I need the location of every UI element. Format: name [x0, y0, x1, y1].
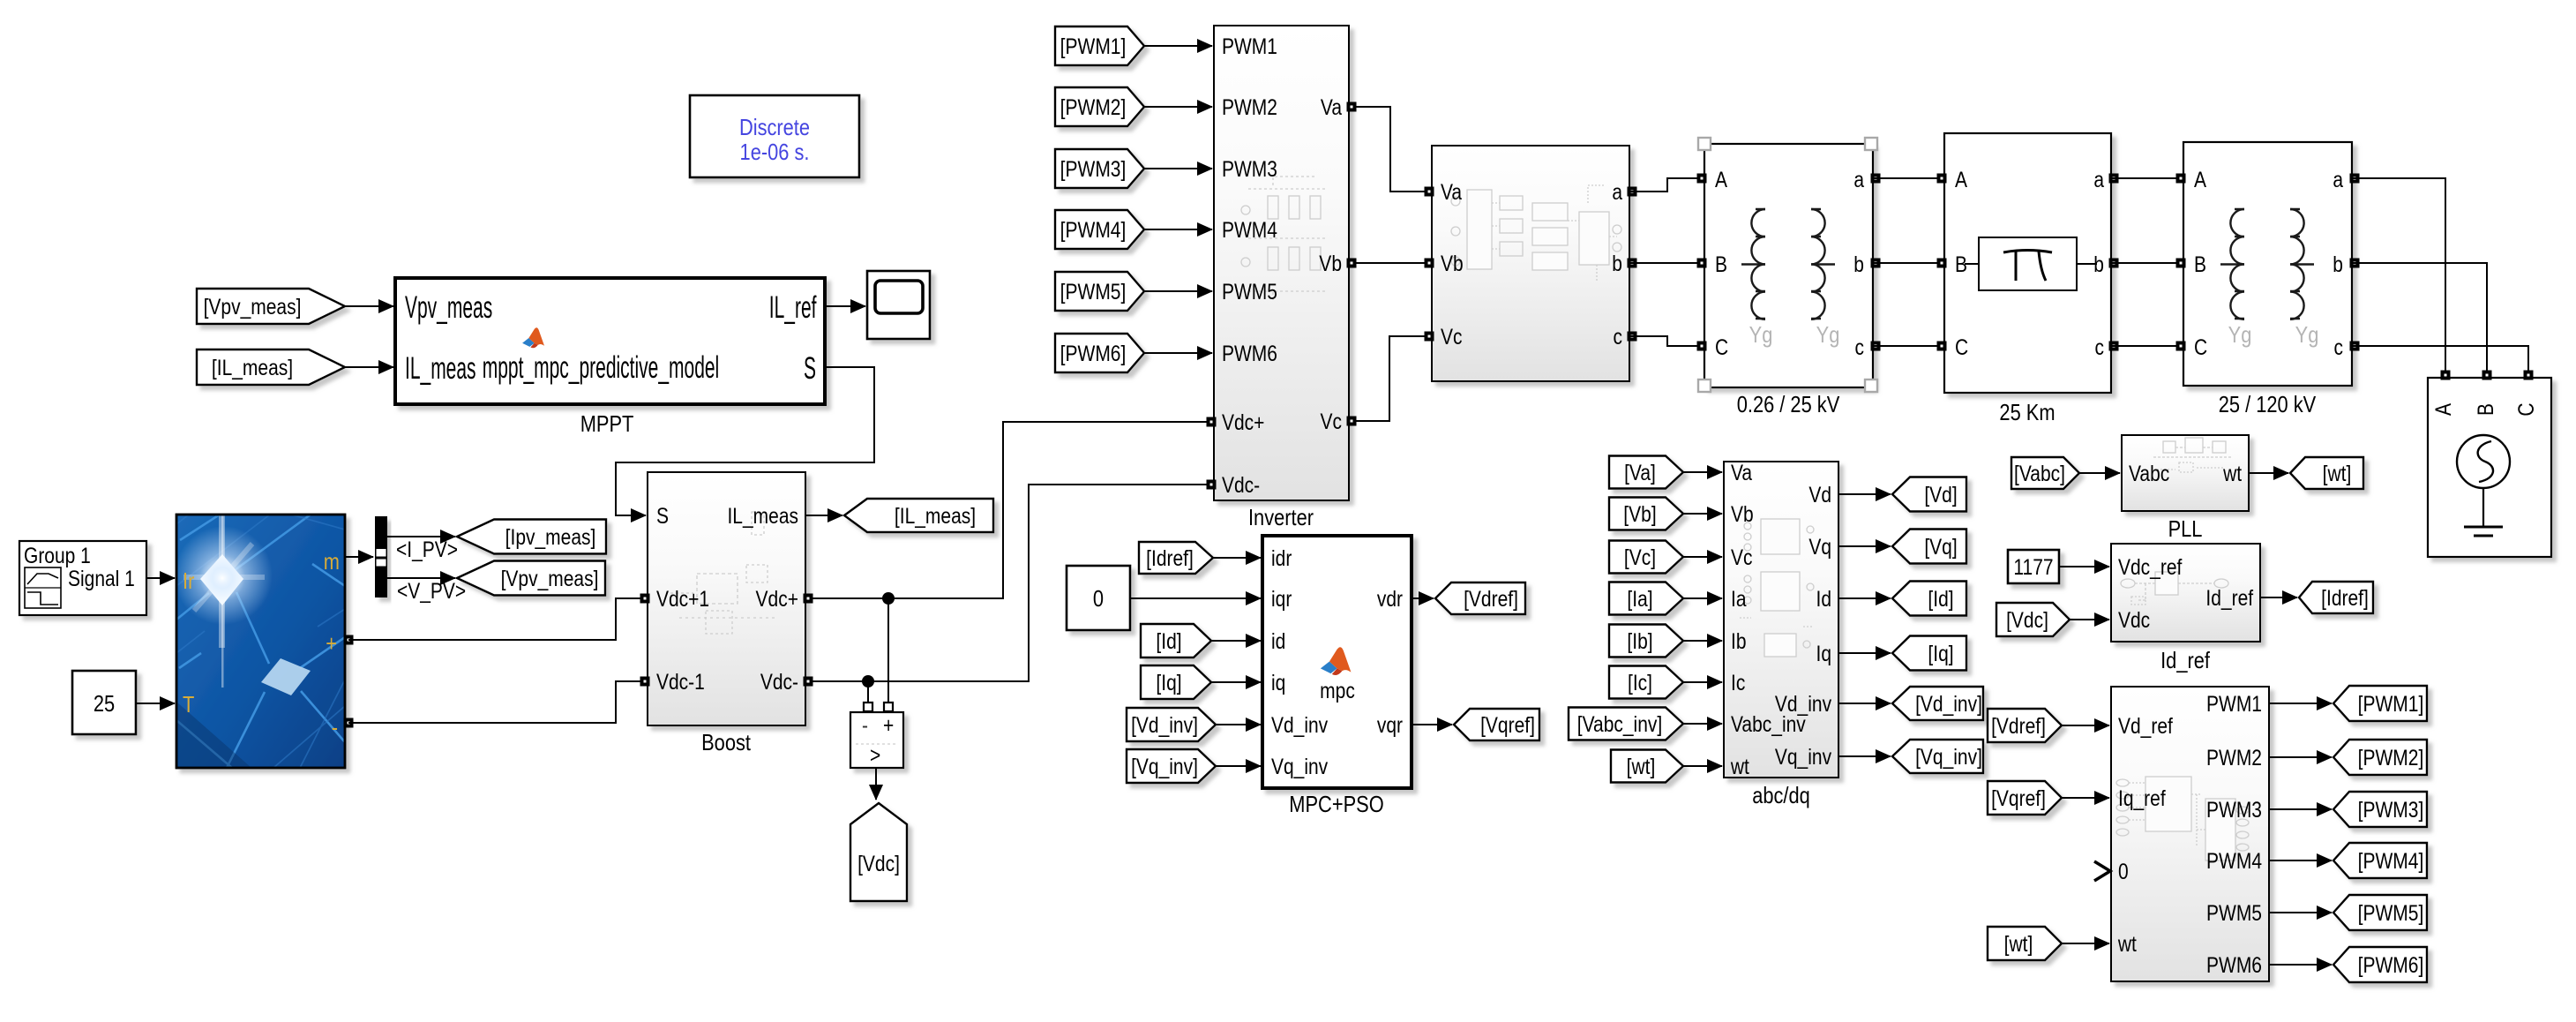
svg-text:[Vabc]: [Vabc]: [2014, 461, 2065, 485]
svg-text:A: A: [1715, 167, 1728, 192]
svg-text:MPC+PSO: MPC+PSO: [1289, 792, 1383, 817]
svg-text:[Vqref]: [Vqref]: [1991, 785, 2046, 810]
wire [Vpv_meas] to MPPT Vpv_meas: [345, 305, 393, 307]
From tag [PWM6]: [1055, 334, 1144, 372]
wire [wt] to PWM generator wt: [2062, 943, 2109, 944]
From tag [wt] lower: [1988, 927, 2062, 960]
Goto tag [Vq]: [1892, 530, 1966, 564]
svg-text:Vdc+1: Vdc+1: [656, 586, 709, 611]
svg-text:Vc: Vc: [1731, 545, 1753, 569]
svg-text:C: C: [2513, 402, 2538, 416]
wire 0 to MPC iqr: [1130, 597, 1261, 599]
svg-text:m: m: [324, 549, 340, 575]
svg-text:Ib: Ib: [1731, 628, 1747, 653]
svg-text:[Iq]: [Iq]: [1928, 641, 1953, 665]
Bus Selector block: [375, 516, 387, 597]
svg-text:a: a: [2333, 167, 2343, 192]
svg-text:Boost: Boost: [701, 730, 751, 755]
primary winding: [2220, 209, 2244, 319]
svg-text:1177: 1177: [2013, 554, 2053, 579]
svg-text:[wt]: [wt]: [2004, 931, 2033, 956]
wire Signal Builder to PV Ir: [146, 577, 175, 579]
svg-text:Ir: Ir: [183, 568, 194, 594]
svg-text:[Ia]: [Ia]: [1627, 586, 1652, 611]
wire [Vq_inv] to MPC Vq_inv: [1216, 765, 1261, 767]
wire junction to voltage sensor -: [867, 681, 869, 703]
junction on Vdc+ wire: [882, 592, 895, 605]
svg-text:Iq_ref: Iq_ref: [2118, 785, 2166, 810]
Scope block: [867, 271, 930, 339]
measurement input ports: [1425, 187, 1434, 197]
From tag [Vdc]: [1996, 603, 2070, 636]
svg-text:PWM3: PWM3: [2206, 797, 2262, 822]
wire Inverter Vb to measurement Vb: [1349, 262, 1432, 264]
svg-text:vqr: vqr: [1377, 712, 1403, 737]
wire abc/dq Iq to [Iq] goto: [1838, 652, 1891, 654]
Goto tag [PWM4]: [2333, 843, 2427, 878]
wire [PWM2] to Inverter: [1144, 106, 1212, 108]
svg-text:Vq_inv: Vq_inv: [1271, 754, 1329, 778]
svg-text:Vdc_ref: Vdc_ref: [2118, 554, 2183, 579]
wire abc/dq Vq_inv to [Vq_inv] goto: [1838, 755, 1891, 757]
svg-text:[Id]: [Id]: [1156, 628, 1181, 653]
wire PWM3 to [PWM3] goto: [2269, 808, 2332, 810]
svg-text:iq: iq: [1271, 670, 1285, 695]
svg-text:Vq: Vq: [1808, 534, 1831, 559]
svg-text:[Vpv_meas]: [Vpv_meas]: [204, 294, 302, 319]
wire abc/dq Vd to [Vd] goto: [1838, 493, 1891, 495]
svg-text:[Vdc]: [Vdc]: [857, 851, 900, 875]
Goto tag [Vpv_meas]: [457, 561, 605, 596]
svg-text:-: -: [332, 715, 338, 740]
Signal Builder block "Group 1 / Signal 1": [19, 541, 146, 615]
wire line c to transformer2 C: [2111, 345, 2183, 347]
transformer 25/120 kV: [2183, 142, 2352, 386]
PLL subsystem: [2122, 435, 2249, 511]
Goto tag [Vd]: [1892, 477, 1966, 512]
svg-text:A: A: [2194, 167, 2207, 192]
Goto tag [Vdc] (downward): [850, 803, 907, 901]
From tag [IL_meas]: [197, 349, 345, 385]
svg-text:Vc: Vc: [1441, 324, 1463, 349]
svg-text:1e-06 s.: 1e-06 s.: [740, 139, 810, 165]
svg-text:S: S: [656, 503, 669, 528]
svg-text:[IL_meas]: [IL_meas]: [895, 503, 976, 528]
svg-text:[PWM1]: [PWM1]: [2358, 691, 2424, 716]
From tag [PWM3]: [1055, 149, 1144, 188]
svg-text:Ia: Ia: [1731, 586, 1747, 611]
transformer 0.26/25 kV: [1704, 144, 1873, 387]
svg-text:wt: wt: [2222, 461, 2242, 485]
three-phase measurement subsystem: [1432, 146, 1629, 381]
wire [Vabc] to PLL: [2079, 472, 2120, 474]
wire [Ib] to abc/dq Ib: [1683, 640, 1722, 642]
svg-text:[Ib]: [Ib]: [1627, 628, 1652, 653]
From tag [Iq]: [1141, 665, 1211, 699]
secondary winding: [1811, 209, 1835, 319]
wire measurement c to transformer1 C: [1629, 336, 1704, 346]
svg-text:Vdc+: Vdc+: [1222, 410, 1264, 434]
svg-text:Vb: Vb: [1731, 501, 1754, 526]
wire [Idref] to MPC idr: [1213, 557, 1261, 559]
svg-text:Vabc: Vabc: [2129, 461, 2169, 485]
svg-text:c: c: [1613, 324, 1622, 349]
svg-text:PWM1: PWM1: [1222, 34, 1277, 58]
svg-text:[Vdref]: [Vdref]: [1464, 586, 1518, 611]
wire PWM2 to [PWM2] goto: [2269, 756, 2332, 758]
Inverter Vb output port: [1347, 259, 1357, 268]
From tag [Id]: [1141, 624, 1211, 658]
svg-text:[Vabc_inv]: [Vabc_inv]: [1577, 711, 1662, 736]
Goto tag [PWM6]: [2333, 947, 2427, 982]
wire measurement b to transformer1 B: [1629, 262, 1704, 264]
Inverter Va output port: [1347, 102, 1357, 112]
From tag [wt]: [1611, 750, 1683, 783]
From tag [PWM1]: [1055, 26, 1144, 65]
wire [Vd_inv] to MPC Vd_inv: [1216, 724, 1261, 725]
svg-text:PWM4: PWM4: [1222, 217, 1277, 242]
wire Boost IL_meas to [IL_meas] goto: [805, 515, 842, 516]
svg-text:c: c: [2094, 334, 2104, 359]
wire Bus Selector <V_PV> to [Vpv_meas]: [387, 577, 455, 579]
25 Km ports: [1937, 174, 1947, 184]
MATLAB logo inside MPC+PSO: [1321, 647, 1352, 675]
svg-text:25 / 120 kV: 25 / 120 kV: [2219, 392, 2316, 417]
wire [Vdc] to Id_ref Vdc: [2070, 619, 2109, 620]
svg-text:Yg: Yg: [2228, 322, 2252, 348]
MATLAB logo inside MPPT: [522, 327, 544, 348]
wire [Ic] to abc/dq Ic: [1683, 681, 1722, 683]
wire [IL_meas] to MPPT IL_meas: [345, 366, 393, 368]
Goto tag [PWM2]: [2333, 740, 2427, 775]
PV Array block (solar panel image): [174, 515, 345, 768]
svg-text:Vd_ref: Vd_ref: [2118, 713, 2173, 738]
svg-text:Id: Id: [1816, 586, 1831, 611]
wire 25 to PV T: [136, 703, 175, 704]
wire MPPT IL_ref to Scope: [825, 305, 865, 307]
svg-text:mpc: mpc: [1320, 678, 1355, 703]
svg-text:[Vb]: [Vb]: [1623, 501, 1656, 526]
wire voltage sensor to [Vdc] goto: [875, 768, 877, 800]
svg-text:Va: Va: [1441, 179, 1462, 204]
wire abc/dq Vq to [Vq] goto: [1838, 545, 1891, 547]
Boost Vdc-1 input port: [640, 677, 650, 687]
svg-text:PWM6: PWM6: [2206, 952, 2262, 977]
svg-text:Yg: Yg: [1749, 322, 1773, 348]
measurement output ports: [1628, 187, 1637, 197]
wire Boost Vdc+ to Inverter Vdc+: [805, 422, 1214, 598]
MPPT MATLAB-function block: [395, 278, 825, 404]
svg-text:[PWM4]: [PWM4]: [1060, 217, 1127, 242]
wire [Vdref] to PWM generator Vd_ref: [2062, 725, 2109, 726]
svg-text:Vpv_meas: Vpv_meas: [405, 291, 492, 326]
svg-text:[wt]: [wt]: [1627, 754, 1656, 778]
svg-text:Vd_inv: Vd_inv: [1775, 691, 1832, 716]
svg-text:mppt_mpc_predictive_model: mppt_mpc_predictive_model: [483, 351, 719, 386]
svg-text:iqr: iqr: [1271, 586, 1292, 611]
wire [Iq] to MPC iq: [1211, 681, 1261, 683]
wire [Vqref] to PWM generator Iq_ref: [2062, 797, 2109, 799]
svg-text:25 Km: 25 Km: [1999, 400, 2055, 425]
svg-text:c: c: [2333, 334, 2343, 359]
Boost subsystem block: [648, 472, 805, 725]
Inverter Vdc+ input port: [1207, 417, 1217, 427]
svg-text:Group 1: Group 1: [24, 543, 91, 567]
primary winding: [1741, 209, 1765, 319]
svg-text:b: b: [2333, 252, 2343, 276]
sample-time block "Discrete 1e-06 s.": [690, 95, 859, 177]
Goto tag [Idref]: [2299, 582, 2373, 613]
wire 1177 to Id_ref Vdc_ref: [2059, 566, 2109, 567]
svg-text:Ic: Ic: [1731, 670, 1745, 695]
svg-text:A: A: [1955, 167, 1968, 192]
svg-text:[PWM2]: [PWM2]: [2358, 745, 2424, 770]
svg-text:PWM2: PWM2: [1222, 94, 1277, 119]
wire measurement a to transformer1 A: [1629, 178, 1704, 192]
svg-text:abc/dq: abc/dq: [1752, 783, 1810, 808]
PV + output port: [344, 635, 354, 645]
wire [Id] to MPC id: [1211, 640, 1261, 642]
wire [PWM4] to Inverter: [1144, 229, 1212, 230]
wire transformer2 a to grid A: [2352, 178, 2445, 372]
secondary winding: [2290, 209, 2314, 319]
From tag [PWM4]: [1055, 210, 1144, 249]
Boost Vdc+1 input port: [640, 594, 650, 604]
svg-text:[Vpv_meas]: [Vpv_meas]: [501, 566, 599, 590]
constant block 1177: [2008, 550, 2059, 583]
svg-text:[PWM2]: [PWM2]: [1060, 94, 1127, 119]
wire MPPT S to Boost S: [616, 367, 874, 515]
svg-text:Vdc: Vdc: [2118, 607, 2150, 632]
wire junction to voltage sensor +: [887, 598, 889, 703]
svg-text:0: 0: [2118, 859, 2129, 883]
wire MPC vqr to [Vqref] goto: [1412, 724, 1452, 725]
svg-text:vdr: vdr: [1377, 586, 1403, 611]
Goto tag [Vdref]: [1435, 582, 1525, 614]
PWM generator subsystem: [2111, 687, 2269, 981]
Goto tag [IL_meas]: [844, 499, 993, 532]
svg-text:<I_PV>: <I_PV>: [396, 537, 458, 561]
From tag [PWM2]: [1055, 87, 1144, 126]
svg-text:b: b: [1612, 251, 1622, 275]
svg-text:[PWM6]: [PWM6]: [2358, 952, 2424, 977]
wire transformer1 c to line C: [1873, 345, 1944, 347]
From tag [Idref]: [1139, 542, 1213, 574]
grid source top ports: [2441, 371, 2451, 380]
svg-text:Id_ref: Id_ref: [2205, 585, 2253, 610]
wire abc/dq Vd_inv to [Vd_inv] goto: [1838, 703, 1891, 704]
wire [Ia] to abc/dq Ia: [1683, 597, 1722, 599]
svg-text:[PWM6]: [PWM6]: [1060, 341, 1127, 365]
svg-text:IL_ref: IL_ref: [769, 291, 817, 326]
wire Bus Selector <I_PV> to [Ipv_meas]: [387, 536, 455, 537]
wire [PWM3] to Inverter: [1144, 168, 1212, 169]
svg-text:[Vc]: [Vc]: [1624, 545, 1656, 569]
svg-text:B: B: [1715, 252, 1727, 276]
svg-text:a: a: [2093, 167, 2104, 192]
svg-text:-: -: [862, 712, 868, 737]
svg-text:[Vd_inv]: [Vd_inv]: [1131, 712, 1198, 737]
transformer2 ports: [2176, 174, 2186, 184]
svg-text:[Vq_inv]: [Vq_inv]: [1915, 744, 1982, 769]
svg-text:[PWM3]: [PWM3]: [1060, 156, 1127, 181]
wire Boost Vdc- to Inverter Vdc-: [805, 485, 1214, 681]
Boost Vdc+ output port: [804, 594, 813, 604]
svg-text:Vdc+: Vdc+: [756, 586, 798, 611]
Goto tag [Vd_inv]: [1892, 687, 1983, 720]
svg-text:B: B: [2194, 252, 2206, 276]
pi symbol: [2003, 251, 2052, 253]
From tag [Vq_inv]: [1127, 749, 1216, 783]
wire abc/dq Id to [Id] goto: [1838, 597, 1891, 599]
svg-text:[PWM1]: [PWM1]: [1060, 34, 1127, 58]
svg-text:A: A: [2430, 402, 2455, 416]
From tag [Ia]: [1609, 582, 1683, 615]
From tag [Vb]: [1609, 498, 1683, 530]
DC voltage measurement block: [850, 703, 903, 768]
svg-text:Inverter: Inverter: [1248, 505, 1314, 530]
constant block 25: [72, 671, 136, 734]
wire PV - to Boost Vdc-1: [348, 681, 648, 723]
svg-text:T: T: [183, 692, 195, 718]
svg-text:[Vd]: [Vd]: [1924, 482, 1957, 507]
svg-text:[Vdc]: [Vdc]: [2006, 607, 2048, 632]
Goto tag [Vq_inv]: [1892, 740, 1983, 773]
Goto tag [Ipv_meas]: [457, 520, 606, 554]
svg-text:Vb: Vb: [1441, 251, 1464, 275]
wire [Vc] to abc/dq Vc: [1683, 556, 1722, 558]
svg-text:Vq_inv: Vq_inv: [1775, 744, 1832, 769]
svg-text:[Ipv_meas]: [Ipv_meas]: [505, 524, 596, 549]
svg-text:[Vdref]: [Vdref]: [1991, 713, 2046, 738]
Inverter subsystem block: [1214, 26, 1349, 500]
svg-text:B: B: [2473, 403, 2497, 416]
From tag [Vd_inv]: [1127, 708, 1216, 741]
svg-text:<V_PV>: <V_PV>: [397, 578, 466, 603]
svg-text:S: S: [804, 352, 816, 387]
Id_ref subsystem: [2111, 544, 2260, 642]
From tag [Ib]: [1609, 625, 1683, 658]
svg-text:PWM1: PWM1: [2206, 691, 2262, 716]
wire transformer1 b to line B: [1873, 262, 1944, 264]
wire Inverter Va to measurement Va: [1349, 107, 1432, 192]
svg-text:[Iq]: [Iq]: [1156, 670, 1181, 695]
wire PV m to Bus Selector: [345, 556, 373, 558]
svg-text:idr: idr: [1271, 545, 1292, 570]
Goto tag [wt]: [2290, 457, 2363, 489]
svg-text:Yg: Yg: [2295, 322, 2319, 348]
svg-text:C: C: [1955, 334, 1968, 359]
svg-text:IL_meas: IL_meas: [727, 503, 798, 528]
svg-text:C: C: [2194, 334, 2207, 359]
wire Inverter Vc to measurement Vc: [1349, 336, 1432, 421]
svg-text:PWM2: PWM2: [2206, 745, 2262, 770]
From tag [Vdref]: [1988, 709, 2062, 742]
svg-text:[Vq_inv]: [Vq_inv]: [1131, 754, 1198, 778]
Goto tag [Iq]: [1892, 636, 1966, 671]
svg-text:[PWM5]: [PWM5]: [1060, 279, 1127, 304]
abc/dq transformation subsystem: [1724, 460, 1838, 778]
wire [Vabc_inv] to abc/dq Vabc_inv: [1683, 723, 1722, 725]
svg-text:PLL: PLL: [2168, 516, 2203, 542]
svg-text:[Ic]: [Ic]: [1628, 670, 1652, 695]
svg-text:[PWM3]: [PWM3]: [2358, 797, 2424, 822]
From tag [Vpv_meas]: [197, 289, 345, 324]
wire PLL wt to [wt] goto: [2249, 472, 2288, 474]
svg-text:a: a: [1853, 167, 1864, 192]
svg-text:+: +: [326, 631, 337, 657]
svg-text:Id_ref: Id_ref: [2160, 648, 2210, 673]
svg-text:PWM6: PWM6: [1222, 341, 1277, 365]
From tag [Va]: [1609, 456, 1683, 489]
svg-text:PWM5: PWM5: [2206, 900, 2262, 925]
wire PWM1 to [PWM1] goto: [2269, 703, 2332, 704]
svg-text:Vc: Vc: [1320, 409, 1342, 433]
svg-text:id: id: [1271, 628, 1285, 653]
From tag [Ic]: [1609, 666, 1683, 699]
MPC+PSO MATLAB-function block: [1262, 536, 1412, 788]
svg-text:Vdc-: Vdc-: [1222, 472, 1260, 497]
svg-text:PWM5: PWM5: [1222, 279, 1277, 304]
svg-text:IL_meas: IL_meas: [405, 352, 476, 387]
wire [PWM6] to Inverter: [1144, 352, 1212, 354]
transformer1 ports: [1697, 174, 1707, 184]
svg-text:[Vd_inv]: [Vd_inv]: [1915, 691, 1982, 716]
svg-text:[Idref]: [Idref]: [1146, 545, 1194, 570]
junction on Vdc- wire: [862, 675, 874, 688]
svg-text:[Id]: [Id]: [1928, 586, 1953, 611]
svg-text:0: 0: [1093, 586, 1104, 612]
Goto tag [Vqref]: [1454, 709, 1539, 740]
wire [PWM5] to Inverter: [1144, 290, 1212, 292]
PV - output port: [344, 718, 354, 728]
wire line b to transformer2 B: [2111, 262, 2183, 264]
wire PV + to Boost Vdc+1: [348, 598, 648, 640]
svg-text:PWM4: PWM4: [2206, 848, 2262, 873]
Inverter Vc output port: [1347, 417, 1357, 426]
From tag [Vqref]: [1988, 781, 2062, 815]
svg-text:[PWM4]: [PWM4]: [2358, 848, 2424, 873]
wire line a to transformer2 A: [2111, 177, 2183, 179]
svg-text:b: b: [1853, 252, 1864, 276]
wire MPC vdr to [Vdref] goto: [1412, 597, 1434, 599]
svg-text:Va: Va: [1731, 460, 1752, 485]
From tag [Vc]: [1609, 541, 1683, 574]
wire PWM5 to [PWM5] goto: [2269, 912, 2332, 913]
svg-text:25: 25: [94, 691, 115, 717]
pi-section line block 25 Km: [1944, 133, 2111, 393]
svg-text:C: C: [1715, 334, 1728, 359]
wire transformer1 a to line A: [1873, 177, 1944, 179]
svg-text:Signal 1: Signal 1: [68, 566, 135, 590]
svg-text:0.26 / 25 kV: 0.26 / 25 kV: [1737, 392, 1840, 417]
From tag [PWM5]: [1055, 272, 1144, 311]
svg-text:wt: wt: [1730, 754, 1749, 778]
wire [PWM1] to Inverter: [1144, 45, 1212, 47]
svg-text:Yg: Yg: [1816, 322, 1840, 348]
three-phase grid source block: [2428, 378, 2551, 557]
wire Id_ref to [Idref] goto: [2260, 597, 2297, 598]
wire PWM4 to [PWM4] goto: [2269, 860, 2332, 861]
svg-text:[Vq]: [Vq]: [1924, 534, 1957, 559]
unconnected input chevron at PWM generator 0: [2094, 861, 2110, 881]
From tag [Vabc]: [2011, 457, 2079, 489]
svg-text:+: +: [883, 712, 894, 737]
svg-text:Va: Va: [1321, 94, 1342, 119]
svg-text:MPPT: MPPT: [580, 411, 634, 437]
svg-text:[Idref]: [Idref]: [2321, 585, 2369, 610]
selection handles on transformer1: [1698, 138, 1877, 392]
